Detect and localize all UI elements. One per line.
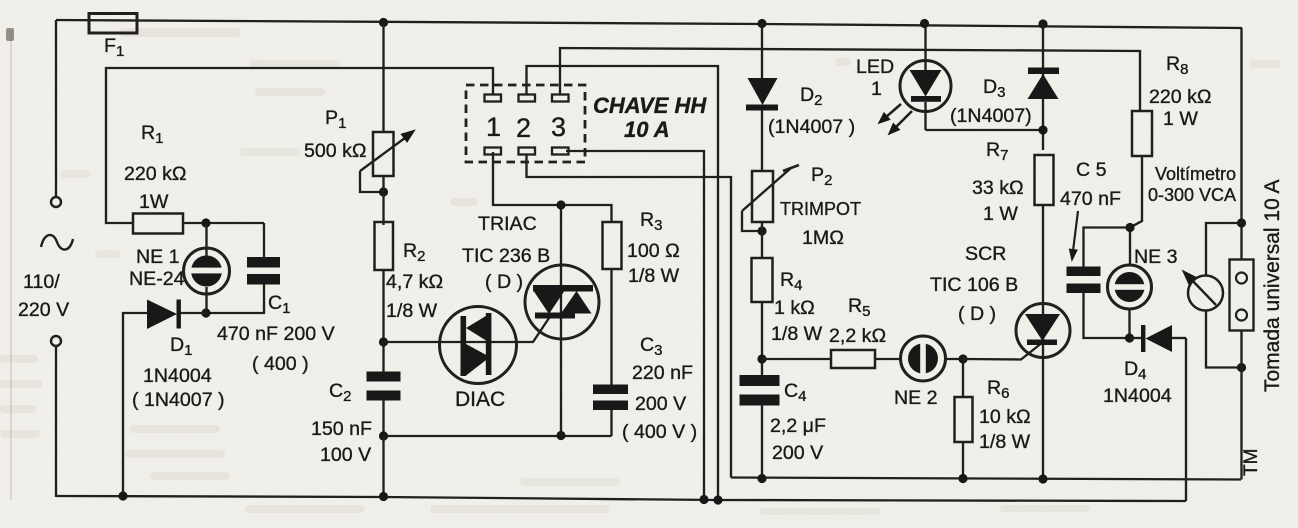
thyristor SCR TIC 106 B bbox=[1016, 304, 1070, 359]
wire inner rail bbox=[731, 478, 1241, 480]
wire R1 to node bbox=[183, 222, 264, 224]
resistor R6 bbox=[955, 359, 973, 479]
label R6 value bbox=[979, 406, 1031, 453]
outlet tomada universal bbox=[1230, 260, 1254, 331]
node NE3/C5/D4 bbox=[1125, 333, 1134, 342]
wire D2 to P2 bbox=[761, 110, 763, 171]
wire D1 cathode lead bbox=[180, 312, 206, 314]
switch pin 3 bottom bbox=[552, 148, 569, 155]
wire top rail bbox=[56, 20, 1242, 28]
wire C2 link to bottom rail bbox=[382, 436, 384, 497]
label LED 1 bbox=[856, 56, 894, 100]
label TM bbox=[1241, 449, 1262, 476]
wire P2 to R4 bbox=[761, 222, 763, 258]
fuse F1 bbox=[89, 14, 137, 34]
node pin2 feed on bottom rail bbox=[713, 495, 722, 504]
node TRIAC anode bbox=[556, 200, 565, 209]
label R5 value bbox=[829, 325, 886, 347]
node R2/C2/DIAC bbox=[379, 337, 388, 346]
wire C5 top branch bbox=[1084, 228, 1131, 268]
wire C4 to inner rail bbox=[761, 406, 763, 480]
label R3 bbox=[640, 209, 663, 234]
node LED/D3/R7 bbox=[1038, 125, 1047, 134]
wire NE1 bottom stub bbox=[205, 287, 207, 313]
wire DIAC to TRIAC gate bbox=[517, 315, 552, 342]
resistor R1 bbox=[133, 214, 183, 234]
resistor R4 bbox=[752, 258, 773, 302]
label R7 bbox=[986, 139, 1009, 164]
wire P1 to R2 bbox=[382, 176, 384, 225]
label D3 bbox=[983, 76, 1006, 101]
diode D3 bbox=[1028, 68, 1060, 100]
wire tomada bottom to inner rail bbox=[1240, 330, 1242, 480]
label R6 bbox=[987, 377, 1010, 402]
wire D2 anode lead bbox=[761, 24, 763, 80]
resistor R3 bbox=[603, 222, 622, 269]
label C4 value bbox=[770, 415, 826, 464]
capacitor C2 bbox=[367, 372, 401, 401]
label P2 bbox=[811, 164, 832, 189]
wire C3 bottom lead bbox=[610, 410, 612, 436]
label R8 bbox=[1166, 53, 1189, 78]
node SCR on inner rail bbox=[1038, 474, 1047, 483]
wire C2 leads bbox=[382, 342, 384, 436]
switch pin 1 bottom bbox=[485, 148, 502, 155]
label R4 bbox=[780, 269, 803, 294]
label R8 value bbox=[1149, 86, 1212, 130]
terminal lower input bbox=[51, 336, 61, 346]
node R8/C5/NE3 bbox=[1125, 223, 1134, 232]
wire voltmeter top lead bbox=[1206, 223, 1242, 276]
node D2 branch on top rail bbox=[757, 19, 766, 28]
capacitor C5 bbox=[1067, 267, 1101, 294]
neon lamp NE2 bbox=[901, 336, 946, 381]
node pin3 wire on bottom rail bbox=[699, 495, 708, 504]
wire R4 to C4 bbox=[761, 302, 763, 375]
label C2 bbox=[329, 380, 352, 405]
label D2 value bbox=[768, 116, 855, 138]
wire switch pin1 bottom to TRIAC and R3 bbox=[493, 152, 612, 222]
wire R3 to C3 bbox=[610, 269, 612, 385]
wire C5 bottom lead bbox=[1084, 293, 1130, 338]
wire R8 to NE3 node bbox=[1130, 156, 1142, 266]
label D1 value bbox=[132, 365, 225, 411]
switch pin 1 top bbox=[485, 95, 502, 102]
resistor R8 bbox=[1132, 111, 1152, 156]
resistor R7 bbox=[1035, 155, 1054, 205]
label CHAVE HH 10 A bbox=[593, 93, 707, 142]
label NE 3 bbox=[1134, 246, 1178, 268]
wire R1 branch from top feed bbox=[106, 68, 493, 223]
node D1 on bottom rail bbox=[118, 491, 127, 500]
wire DIAC left lead bbox=[384, 341, 441, 343]
wire left input upper bbox=[55, 20, 57, 197]
node NE1/C1/D1 bbox=[201, 308, 210, 317]
label SCR bbox=[930, 243, 1018, 325]
label R5 bbox=[848, 295, 871, 320]
resistor R5 bbox=[831, 350, 875, 368]
node D3 branch on top rail bbox=[1038, 19, 1047, 28]
voltmeter M1 bbox=[1178, 266, 1223, 311]
label C2 value bbox=[311, 418, 372, 466]
node R1/NE1/C1 bbox=[201, 218, 210, 227]
diode D2 bbox=[746, 78, 778, 111]
wire pin3 bottom to bottom rail bbox=[566, 151, 704, 499]
label P1 value bbox=[304, 140, 367, 162]
node TRIAC cathode link bbox=[556, 431, 565, 440]
wire LED cathode to D3 column bbox=[926, 129, 1044, 131]
label NE 1 bbox=[129, 246, 185, 290]
label D2 bbox=[800, 84, 823, 109]
AC source sine symbol bbox=[41, 235, 73, 250]
label D4 value bbox=[1103, 385, 1172, 407]
label D4 bbox=[1124, 358, 1147, 383]
potentiometer P1 bbox=[360, 125, 419, 192]
label R7 value bbox=[972, 177, 1024, 225]
wire C2/TRIAC/C3 bottom link bbox=[384, 435, 612, 437]
wire left input lower bbox=[55, 346, 57, 497]
node top rail P1 branch bbox=[379, 18, 388, 27]
label D3 value bbox=[950, 105, 1032, 127]
label switch pin numbers bbox=[486, 112, 566, 143]
node R6 on inner rail bbox=[958, 474, 967, 483]
LED 1 bbox=[874, 61, 951, 140]
label C1 bbox=[268, 292, 291, 317]
label C4 bbox=[784, 380, 807, 405]
wire pin2 bottom to inner rail bbox=[527, 155, 732, 478]
capacitor C1 bbox=[247, 257, 280, 285]
wire C1 bottom lead bbox=[206, 285, 264, 314]
wire NE2 to node bbox=[946, 358, 964, 360]
wire R7 to SCR anode bbox=[1042, 205, 1044, 304]
label C1 value bbox=[217, 323, 335, 375]
wire P1 top lead bbox=[382, 23, 384, 133]
label R2 bbox=[403, 240, 426, 265]
label TRIAC bbox=[462, 213, 550, 293]
wire LED top lead bbox=[924, 24, 926, 63]
label Tomada universal 10 A bbox=[1261, 180, 1284, 392]
wire pin2 top feed bbox=[527, 66, 719, 500]
wire NE1 top stub bbox=[205, 223, 207, 256]
triac Q1 TIC 236 B bbox=[525, 205, 599, 435]
node R4/R5/C4 bbox=[757, 354, 766, 363]
neon lamp NE3 bbox=[1108, 265, 1152, 338]
wire bottom rail bbox=[56, 496, 1186, 501]
label R1 bbox=[141, 122, 164, 147]
wire R2 to DIAC node bbox=[382, 270, 384, 342]
left margin rule bbox=[6, 28, 14, 500]
label DIAC bbox=[455, 388, 505, 411]
label C3 bbox=[640, 334, 663, 359]
wire right column bbox=[1240, 28, 1242, 260]
node tomada bottom junction bbox=[1237, 363, 1246, 372]
label D1 bbox=[170, 334, 193, 359]
wire SCR gate bbox=[963, 342, 1043, 360]
wire R5 left lead bbox=[762, 358, 831, 360]
trimpot P2 bbox=[742, 165, 799, 231]
label NE 2 bbox=[894, 387, 938, 409]
label R4 value bbox=[771, 297, 823, 345]
switch CHAVE HH dashed body bbox=[466, 85, 585, 162]
label R3 value bbox=[627, 240, 680, 287]
node P1 branch on bottom rail bbox=[379, 492, 388, 501]
node voltmeter top bbox=[1237, 218, 1246, 227]
label F1 bbox=[104, 35, 124, 60]
switch pin 2 bottom bbox=[519, 148, 536, 155]
wire pin3 top feed to R8 bbox=[560, 48, 1140, 111]
wire D1 anode to bottom rail bbox=[123, 313, 148, 496]
node C4 on inner rail bbox=[757, 474, 766, 483]
switch pin 3 top bbox=[552, 95, 569, 102]
wire D4 to bottom rail bbox=[1185, 338, 1187, 501]
wire R5 to NE2 bbox=[875, 358, 901, 360]
wire D3 column bbox=[1042, 24, 1044, 150]
wire SCR cathode to inner rail bbox=[1042, 357, 1044, 479]
wire C1 top lead bbox=[263, 223, 265, 258]
node NE2/R6/SCR gate bbox=[958, 354, 967, 363]
capacitor C3 bbox=[593, 385, 628, 411]
terminal upper input bbox=[51, 197, 61, 207]
label 110/220 V bbox=[18, 271, 69, 321]
resistor R2 bbox=[375, 222, 394, 270]
annotation arrow C5 bbox=[1067, 211, 1078, 263]
label P2 value bbox=[780, 199, 861, 249]
capacitor C4 bbox=[740, 375, 780, 406]
label Voltimetro bbox=[1148, 164, 1236, 205]
label P1 bbox=[325, 107, 346, 132]
switch pin 2 top bbox=[519, 95, 536, 102]
label C5 bbox=[1060, 159, 1121, 210]
diac D5 bbox=[440, 307, 518, 384]
label R2 value bbox=[386, 271, 443, 322]
neon lamp NE1 bbox=[184, 248, 230, 294]
node P2 wiper bbox=[757, 226, 766, 235]
node C2 link bbox=[379, 431, 388, 440]
diode D4 bbox=[1130, 325, 1187, 352]
diode D1 bbox=[147, 300, 181, 330]
label C3 value bbox=[622, 362, 697, 443]
node P1 wiper bbox=[379, 187, 388, 196]
node LED branch on top rail bbox=[920, 19, 929, 28]
label R1 value bbox=[124, 163, 187, 213]
wire voltmeter bottom lead bbox=[1206, 311, 1242, 368]
